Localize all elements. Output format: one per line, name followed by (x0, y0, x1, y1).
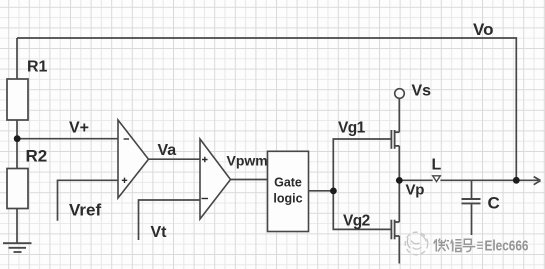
resistor R2 (7, 147, 47, 209)
wire left feedback drop (16, 38, 18, 79)
wire Vg1 (333, 139, 390, 191)
wire R2 to ground (16, 209, 18, 243)
wire Vpwm (231, 179, 268, 181)
wire Q2 drain to Vp (398, 180, 400, 222)
ground (3, 243, 32, 252)
svg-text:logic: logic (273, 192, 302, 206)
gate logic box U3 (268, 151, 309, 231)
node gate drive junction (330, 188, 337, 195)
wire gate logic output (309, 190, 334, 192)
wire R1 to node V+ (16, 120, 18, 169)
comparator U2 (200, 139, 231, 219)
wire Vg2 (333, 191, 390, 230)
svg-text:Vt: Vt (151, 224, 168, 241)
resistor R1 (7, 59, 48, 121)
node Vp (396, 177, 424, 199)
svg-text:Vref: Vref (69, 201, 101, 220)
node V+ (14, 120, 89, 143)
wire Vs to Q1 drain (398, 99, 400, 133)
wire Va (149, 158, 201, 160)
transistor Q1 high-side MOSFET (391, 130, 399, 149)
wire Vo top rail (17, 38, 516, 180)
svg-text:Vpwm: Vpwm (227, 152, 268, 168)
watermark text 微信号:Elec666 (434, 239, 476, 252)
wire Q2 source down (398, 236, 400, 264)
wire Vref (58, 180, 119, 221)
node Vo output (473, 20, 520, 184)
svg-text:Vp: Vp (406, 182, 425, 199)
wire capacitor top lead (471, 180, 473, 198)
svg-text:R2: R2 (26, 147, 48, 166)
svg-text:V+: V+ (69, 120, 89, 137)
svg-text:Vg1: Vg1 (338, 119, 366, 136)
wire V+ to op-amp (17, 138, 118, 140)
svg-text:Vs: Vs (412, 83, 432, 100)
wire Vt (139, 200, 201, 240)
watermark icon (405, 232, 428, 255)
svg-text:L: L (432, 157, 442, 174)
wire output arrow (516, 177, 540, 185)
op-amp U1 error amplifier (118, 120, 149, 198)
svg-text:R1: R1 (27, 59, 48, 76)
svg-text:Gate: Gate (274, 176, 302, 190)
wire capacitor bottom lead (471, 204, 473, 235)
supply terminal Vs (395, 83, 431, 100)
svg-text:Vg2: Vg2 (343, 212, 370, 229)
transistor Q2 low-side MOSFET (391, 220, 399, 240)
wire inductor to output node (440, 179, 516, 181)
wire Q1 source to node Vp (398, 146, 400, 181)
wire Vp to inductor (399, 179, 432, 181)
svg-text:Vo: Vo (473, 20, 493, 39)
capacitor C (462, 194, 500, 213)
svg-text:C: C (488, 194, 500, 213)
inductor L (432, 157, 442, 182)
svg-text:Va: Va (158, 142, 177, 159)
svg-text:Elec666: Elec666 (485, 238, 529, 254)
